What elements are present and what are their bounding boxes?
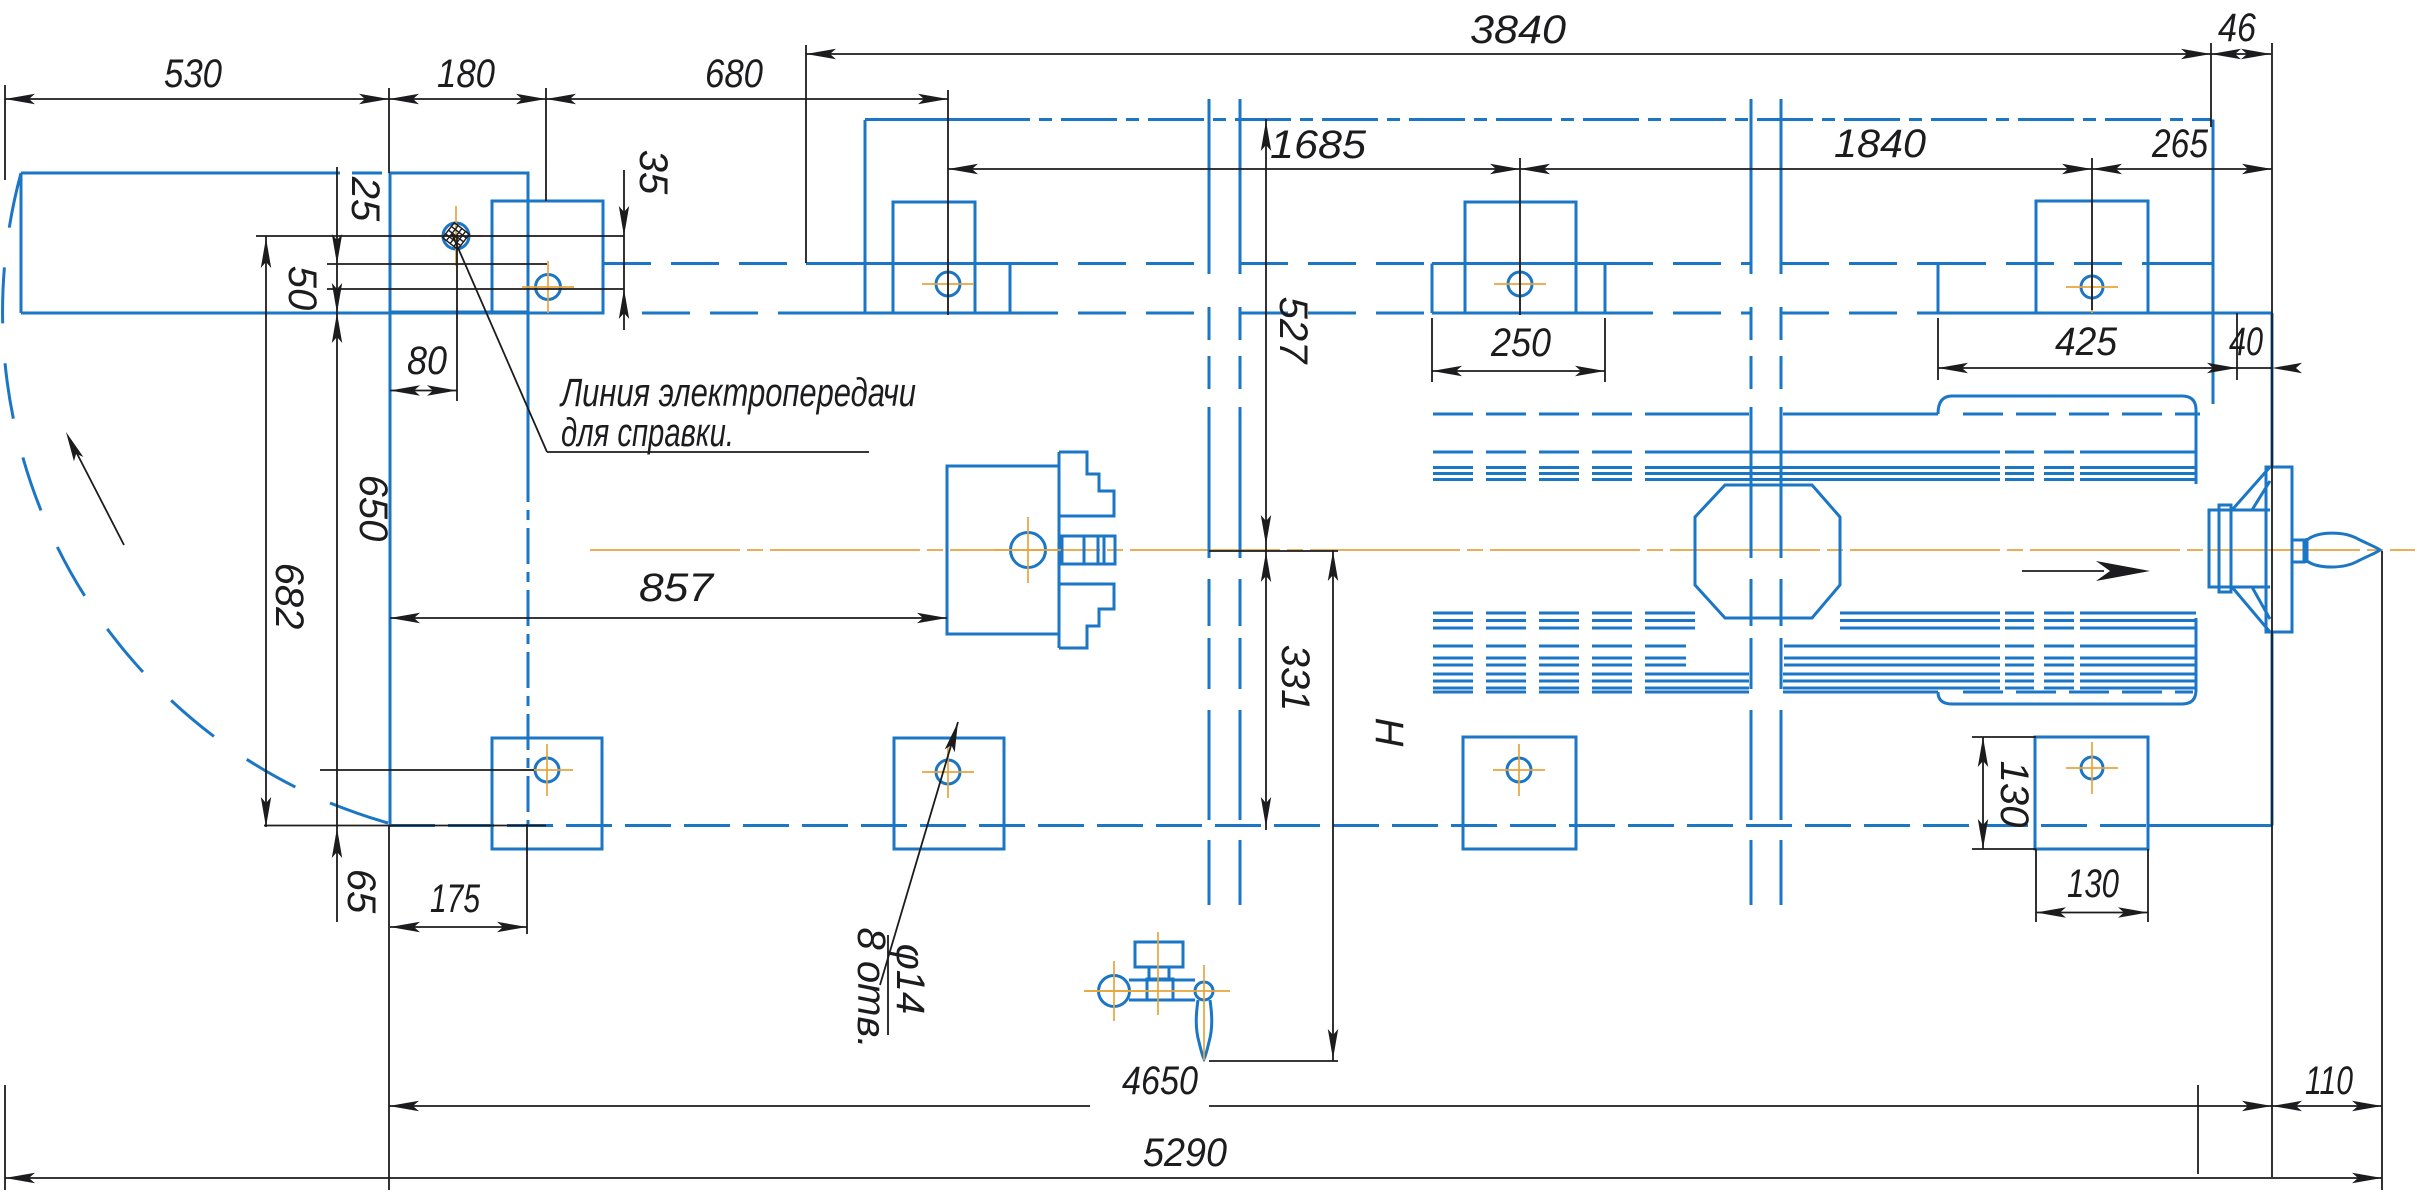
svg-text:130: 130	[1992, 761, 2036, 828]
svg-text:80: 80	[407, 339, 447, 383]
svg-text:650: 650	[351, 475, 395, 542]
svg-text:φ14: φ14	[888, 944, 932, 1015]
svg-text:857: 857	[639, 566, 715, 610]
svg-text:250: 250	[1490, 321, 1551, 365]
svg-text:8 отв.: 8 отв.	[849, 928, 893, 1049]
svg-text:для справки.: для справки.	[561, 411, 734, 455]
svg-text:3840: 3840	[1470, 8, 1566, 52]
svg-text:530: 530	[164, 52, 222, 96]
svg-text:35: 35	[631, 150, 675, 195]
svg-text:175: 175	[430, 877, 481, 921]
svg-text:65: 65	[339, 869, 383, 914]
svg-text:680: 680	[705, 52, 763, 96]
svg-text:331: 331	[1273, 645, 1317, 712]
svg-text:1685: 1685	[1270, 123, 1367, 167]
svg-text:5290: 5290	[1143, 1131, 1227, 1175]
svg-text:1840: 1840	[1834, 122, 1926, 166]
svg-text:110: 110	[2305, 1059, 2353, 1103]
svg-text:50: 50	[280, 266, 324, 311]
svg-text:25: 25	[343, 176, 387, 222]
svg-text:265: 265	[2151, 122, 2208, 166]
svg-text:527: 527	[1271, 297, 1315, 365]
svg-text:682: 682	[267, 563, 311, 630]
svg-text:Линия электропередачи: Линия электропередачи	[559, 371, 916, 415]
svg-text:4650: 4650	[1122, 1059, 1198, 1103]
svg-text:130: 130	[2067, 862, 2119, 906]
svg-text:425: 425	[2055, 320, 2118, 364]
svg-text:180: 180	[437, 52, 495, 96]
svg-text:H: H	[1367, 718, 1411, 747]
svg-text:46: 46	[2218, 6, 2257, 50]
svg-text:40: 40	[2229, 320, 2263, 364]
